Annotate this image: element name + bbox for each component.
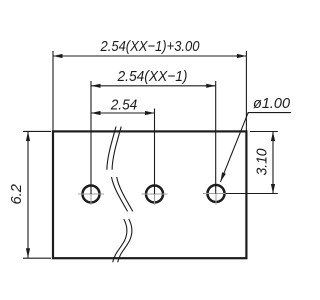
- svg-text:6.2: 6.2: [8, 183, 25, 204]
- hole H2: [142, 186, 168, 206]
- hole H3: [203, 185, 229, 205]
- leader diameter label: [221, 95, 292, 182]
- svg-text:3.10: 3.10: [253, 148, 270, 176]
- svg-text:2.54(XX−1)+3.00: 2.54(XX−1)+3.00: [100, 38, 200, 55]
- svg-text:ø1.00: ø1.00: [253, 95, 291, 112]
- svg-text:2.54: 2.54: [110, 96, 138, 113]
- dimension C line 2.54: [91, 96, 155, 194]
- break line pair segment 2: [112, 177, 133, 211]
- svg-text:2.54(XX−1): 2.54(XX−1): [117, 68, 188, 85]
- dimension D line 3.10: [226, 132, 278, 194]
- hole H1: [78, 186, 104, 206]
- break line pair segment 1: [107, 127, 121, 170]
- dimension E line 6.2: [8, 131, 51, 258]
- part outline rectangle: [53, 131, 246, 258]
- break line pair segment 3: [113, 219, 132, 262]
- dimension A line 2.54(XX-1)+3.00: [53, 38, 246, 131]
- dimension B line 2.54(XX-1): [91, 68, 216, 194]
